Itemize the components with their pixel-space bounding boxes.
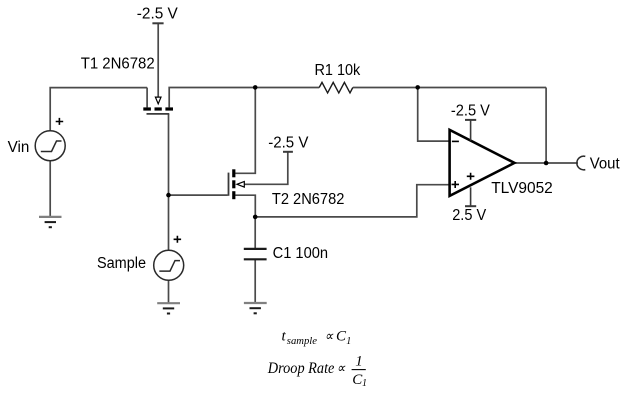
- wire R1 right to feedback node: [353, 87, 418, 89]
- voltage source Vin: [35, 118, 65, 161]
- svg-text:TLV9052: TLV9052: [491, 180, 553, 197]
- svg-text:Vin: Vin: [8, 139, 30, 156]
- node junction T1 gate / T2 gate / Sample: [166, 193, 171, 198]
- svg-text:R1 10k: R1 10k: [315, 62, 361, 79]
- wire Sample source to ground: [168, 280, 170, 303]
- power -2.5 V supply bar (T1 bulk): [152, 22, 163, 24]
- wire op-amp output to Vout terminal: [514, 162, 578, 164]
- op-amp U1 TLV9052: [450, 120, 515, 206]
- annotation t_sample proportional to C1: [282, 328, 352, 347]
- wire T2 drain right and up to top rail: [235, 88, 255, 174]
- wire feedback top rail: [418, 87, 546, 89]
- svg-text:1: 1: [362, 378, 367, 389]
- wire hold node to op-amp non-inverting input: [255, 185, 448, 217]
- svg-text:C1 100n: C1 100n: [273, 245, 329, 262]
- ground (Vin): [39, 217, 62, 227]
- svg-text:Droop Rate: Droop Rate: [267, 360, 334, 377]
- terminal Vout: [577, 156, 585, 170]
- wire feedback node down to op-amp inverting input: [418, 88, 449, 142]
- transistor T1 2N6782: [143, 97, 173, 114]
- node junction T1 drain / T2 drain / R1: [253, 85, 258, 90]
- wire sample node to T2 gate: [169, 194, 228, 196]
- wire Vin+ up to T1 source: [50, 88, 147, 131]
- svg-text:Vout: Vout: [590, 155, 620, 172]
- ground (C1): [244, 303, 267, 313]
- wire T2 source right and down to hold node: [235, 195, 255, 217]
- svg-text:T1 2N6782: T1 2N6782: [81, 55, 155, 72]
- wire T1 drain up and right to node: [169, 88, 255, 108]
- svg-text:1: 1: [355, 354, 363, 370]
- wire T1 bulk supply line: [157, 23, 159, 97]
- svg-text:Sample: Sample: [97, 255, 146, 272]
- wire hold node down to C1: [254, 217, 256, 248]
- svg-text:-2.5 V: -2.5 V: [451, 103, 491, 120]
- wire T2 bulk to -2.5V supply: [244, 152, 287, 185]
- power -2.5 V supply bar (T2 bulk): [283, 151, 293, 153]
- annotation droop rate proportional to 1/C1: [267, 354, 367, 390]
- transistor T2 2N6782: [229, 169, 245, 199]
- svg-text:-2.5 V: -2.5 V: [137, 5, 179, 22]
- wire C1 bottom to ground: [254, 260, 256, 303]
- capacitor C1: [244, 249, 267, 259]
- svg-text:∝: ∝: [325, 329, 334, 344]
- wire node to R1 left: [255, 87, 319, 89]
- wire Vin source to ground: [49, 161, 51, 217]
- wire feedback down to output node: [545, 88, 547, 164]
- wire sample node down to Sample source: [168, 195, 170, 250]
- wire T1 source lead down: [146, 88, 148, 108]
- svg-text:-2.5 V: -2.5 V: [268, 134, 309, 151]
- node junction R1 / feedback / inverting input: [415, 85, 420, 90]
- svg-text:∝: ∝: [337, 362, 346, 377]
- voltage source Sample: [154, 236, 184, 280]
- ground (Sample): [157, 303, 180, 313]
- svg-text:1: 1: [346, 336, 351, 347]
- svg-text:2.5 V: 2.5 V: [452, 207, 487, 224]
- node junction output / feedback: [544, 161, 549, 166]
- wire T1 gate down to sample node: [168, 114, 170, 195]
- resistor R1: [319, 82, 353, 93]
- svg-text:T2 2N6782: T2 2N6782: [272, 191, 345, 208]
- svg-text:sample: sample: [287, 336, 318, 347]
- node junction T2 source / C1 / non-inverting input: [253, 215, 258, 220]
